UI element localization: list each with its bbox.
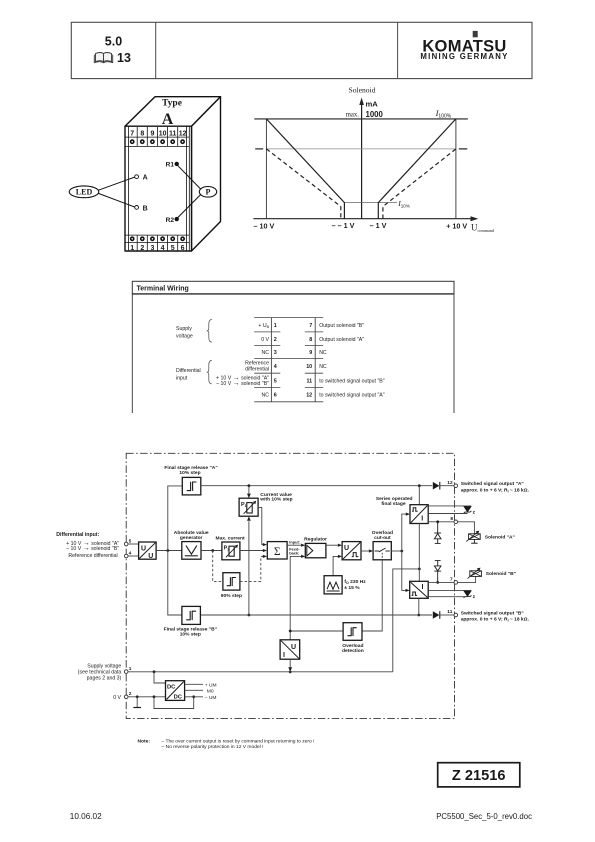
svg-text:detection: detection — [342, 648, 364, 654]
svg-text:Ucommand: Ucommand — [471, 222, 495, 233]
svg-text:5: 5 — [171, 245, 175, 252]
wire stage B bottom output — [428, 596, 467, 598]
svg-text:8: 8 — [140, 130, 144, 137]
svg-text:10.06.02: 10.06.02 — [70, 812, 102, 821]
svg-text:10% step: 10% step — [180, 632, 201, 638]
table horizontals — [254, 318, 323, 402]
svg-text:generator: generator — [180, 535, 203, 541]
wire stage A bottom to stage B top — [418, 524, 420, 582]
absolute value generator — [182, 542, 201, 560]
svg-text:10% step: 10% step — [179, 470, 200, 476]
svg-text:cut-out: cut-out — [374, 535, 391, 541]
row labels left — [216, 323, 270, 399]
svg-text:1: 1 — [274, 323, 277, 329]
pin 2 — [124, 695, 128, 699]
terminal numbers 7-12 — [130, 130, 186, 137]
svg-text:7: 7 — [309, 323, 312, 329]
wire release B line to diode — [200, 614, 432, 616]
svg-text:Regulator: Regulator — [304, 537, 327, 543]
solid curve left — [266, 119, 344, 219]
svg-text:R2: R2 — [166, 217, 175, 224]
svg-text:Switched signal output "A": Switched signal output "A" — [461, 481, 524, 487]
svg-text:fO 230 Hz: fO 230 Hz — [344, 579, 366, 585]
wire regulator to U-pulse — [326, 544, 340, 546]
terminal screws top — [130, 139, 185, 144]
terminal strip top — [125, 127, 189, 146]
section side borders — [131, 294, 133, 413]
pin 1 — [124, 670, 128, 674]
module right face — [192, 97, 221, 251]
LED callout lines — [98, 177, 134, 190]
wire U/U output bus — [156, 550, 182, 552]
wire feedback into regulator — [290, 556, 303, 639]
svg-text:Terminal Wiring: Terminal Wiring — [137, 286, 189, 293]
dashed curve left — [266, 149, 340, 219]
diode output B — [433, 611, 454, 619]
svg-text:9: 9 — [150, 130, 154, 137]
node freewheel A — [436, 520, 439, 523]
potentiometer P2 — [222, 542, 240, 560]
comparator final stage release B — [182, 606, 201, 624]
svg-text:Solenoid "A": Solenoid "A" — [485, 534, 515, 540]
wire stage B to pin 7 and solenoid B — [428, 581, 454, 583]
svg-text:8: 8 — [309, 337, 312, 343]
current sense I/U — [280, 640, 300, 659]
dashed curve right — [383, 149, 456, 219]
svg-text:90% step: 90% step — [221, 593, 242, 599]
svg-text:Z 21516: Z 21516 — [452, 768, 506, 784]
led B — [135, 206, 139, 210]
wire P1 output to summer — [258, 507, 264, 544]
wire pin4 to U/U — [128, 555, 139, 557]
svg-text:differential: differential — [245, 366, 269, 372]
svg-text:– No reverse polarity protect: – No reverse polarity protection in 12 V… — [162, 744, 264, 750]
dashed wire 90% to summer — [240, 556, 265, 581]
svg-text:5: 5 — [274, 378, 277, 384]
solenoid B valve — [468, 568, 482, 579]
svg-text:13: 13 — [117, 51, 131, 65]
svg-text:11: 11 — [447, 609, 452, 615]
svg-text:NC: NC — [262, 350, 270, 356]
svg-text:2: 2 — [129, 691, 132, 697]
diode freewheel A — [434, 522, 441, 544]
svg-text:I10%: I10% — [397, 199, 410, 208]
svg-text:DC: DC — [167, 685, 176, 691]
svg-text:– 10 V: – 10 V — [254, 222, 275, 231]
svg-text:5.0: 5.0 — [105, 35, 122, 49]
node release B junction — [417, 614, 420, 617]
svg-text:7: 7 — [450, 577, 453, 583]
ground — [136, 697, 138, 708]
svg-text:U: U — [141, 545, 146, 552]
svg-text:+ 10 V: + 10 V — [446, 222, 467, 231]
node stage midpoint — [418, 568, 421, 571]
svg-text:– 10 V → solenoid "B": – 10 V → solenoid "B" — [66, 545, 119, 552]
pot R2 — [175, 217, 179, 221]
book icon — [94, 53, 112, 63]
svg-text:DC: DC — [174, 694, 183, 700]
svg-text:2: 2 — [274, 337, 277, 343]
node freewheel B — [436, 581, 439, 584]
svg-text:4: 4 — [161, 245, 165, 252]
wire dc feed — [154, 672, 166, 683]
wire abs to P2 — [201, 550, 222, 552]
header divider 2 — [397, 22, 399, 78]
brace supply — [207, 320, 212, 343]
svg-text:3: 3 — [150, 245, 154, 252]
svg-text:to switched signal output "B": to switched signal output "B" — [319, 378, 385, 384]
terminal strip bottom — [125, 235, 189, 250]
pwm converter U-pulse — [342, 542, 361, 560]
svg-text:NC: NC — [319, 364, 327, 370]
module front face — [125, 126, 192, 251]
svg-text:0 V: 0 V — [113, 695, 121, 701]
wire I/U sense tap — [289, 659, 291, 668]
svg-text:– 1 V: – 1 V — [370, 221, 387, 230]
overload detection comparator — [343, 623, 362, 641]
wire -um — [185, 696, 203, 698]
wire stage A to pin 8 and solenoid A — [428, 521, 454, 523]
svg-text:8: 8 — [450, 516, 453, 522]
svg-text:A: A — [143, 175, 148, 182]
LED callout — [69, 186, 99, 198]
svg-text:MINING GERMANY: MINING GERMANY — [420, 52, 508, 61]
terminal numbers 1-6 — [130, 245, 184, 252]
svg-text:– 10 V → solenoid "B": – 10 V → solenoid "B" — [216, 380, 269, 387]
dashed 10% level — [255, 148, 263, 150]
final stage B — [410, 581, 429, 598]
svg-text:7: 7 — [130, 130, 134, 137]
svg-text:2: 2 — [140, 245, 144, 252]
svg-text:U: U — [148, 553, 153, 560]
svg-text:– The over current output is: – The over current output is reset by co… — [162, 739, 315, 745]
svg-text:4: 4 — [274, 364, 277, 370]
svg-text:LED: LED — [76, 188, 93, 197]
supply rail — [128, 671, 393, 673]
header frame — [71, 22, 532, 78]
wire release A to pin 12 — [201, 485, 432, 487]
svg-text:1: 1 — [129, 666, 132, 672]
max level line — [254, 118, 468, 120]
svg-text:12: 12 — [179, 130, 187, 137]
node -um loop — [192, 695, 195, 698]
svg-text:PC5500_Sec_5-0_rev0.doc: PC5500_Sec_5-0_rev0.doc — [436, 812, 532, 821]
drawing number box — [438, 763, 520, 787]
svg-text:final stage: final stage — [381, 501, 405, 507]
svg-text:9: 9 — [309, 350, 312, 356]
svg-text:+ UM: + UM — [205, 682, 217, 688]
svg-text:Max. current: Max. current — [216, 535, 245, 541]
wire stage B mid output — [428, 589, 471, 591]
svg-text:voltage: voltage — [176, 333, 193, 339]
wire P1 bottom to release B line — [248, 521, 250, 615]
dc-dc converter — [166, 681, 185, 701]
pot R1 — [175, 162, 179, 166]
svg-text:Σ: Σ — [274, 546, 281, 558]
svg-text:Switched signal output "B": Switched signal output "B" — [461, 611, 524, 617]
svg-text:P: P — [206, 188, 211, 197]
svg-text:Solenoid "B": Solenoid "B" — [486, 571, 516, 577]
node stage A drive tap — [418, 484, 421, 487]
svg-text:Output solenoid "A": Output solenoid "A" — [319, 337, 364, 343]
svg-text:approx. 0 to + 6 V; Ri ~ 18 kΩ: approx. 0 to + 6 V; Ri ~ 18 kΩ. — [461, 617, 530, 623]
svg-text:z: z — [473, 511, 476, 516]
svg-text:Solenoid: Solenoid — [348, 86, 375, 95]
pin numbers 1-6 — [274, 323, 277, 399]
svg-text:pages 2 and 3): pages 2 and 3) — [87, 675, 122, 681]
node 0V dc tap — [153, 695, 156, 698]
svg-text:NC: NC — [262, 393, 270, 399]
svg-text:I: I — [283, 652, 285, 659]
brace differential — [207, 360, 212, 384]
pin 7 — [454, 581, 458, 585]
wire cut-out output — [391, 550, 402, 552]
node P1 tap — [248, 484, 251, 487]
svg-text:A: A — [162, 111, 174, 128]
wire 0V loop under dc — [154, 697, 194, 709]
svg-text:1000: 1000 — [366, 110, 384, 119]
left boundary — [265, 119, 267, 219]
node supply rail sense — [289, 671, 292, 674]
P callout — [199, 187, 216, 198]
svg-text:U: U — [344, 545, 349, 552]
x labels — [254, 221, 468, 231]
svg-text:Differential input:: Differential input: — [56, 532, 99, 538]
wire drive to stage B — [402, 551, 407, 590]
svg-text:12: 12 — [306, 393, 312, 399]
svg-text:6: 6 — [181, 245, 185, 252]
svg-text:– – 1 V: – – 1 V — [332, 221, 355, 230]
module top face — [125, 97, 221, 127]
wire U-pulse to cut-out — [361, 550, 371, 552]
terminal screws bottom — [130, 236, 185, 241]
svg-text:10: 10 — [159, 130, 167, 137]
wire stage A top output — [428, 505, 471, 507]
wire to release B — [168, 551, 182, 616]
wire summer to regulator — [287, 544, 303, 546]
wire stage A gate from release line — [418, 486, 420, 505]
svg-text:I: I — [422, 584, 424, 591]
komatsu T mark — [473, 31, 478, 37]
svg-text:12: 12 — [447, 480, 453, 486]
svg-text:Output solenoid "B": Output solenoid "B" — [319, 323, 364, 329]
svg-text:3: 3 — [274, 350, 277, 356]
wire m0 — [185, 689, 203, 691]
svg-text:U: U — [291, 644, 296, 651]
svg-text:mA: mA — [366, 99, 379, 108]
wire into P1 top — [248, 486, 250, 495]
svg-text:z: z — [473, 595, 476, 600]
P callout lines — [178, 165, 201, 189]
svg-text:– UM: – UM — [205, 695, 217, 701]
svg-text:Reference differential: Reference differential — [68, 553, 117, 559]
wire overload detect up — [362, 560, 382, 631]
wire stage A mid output — [428, 513, 467, 515]
overload cut-out switch — [373, 542, 391, 560]
dashed wire bus to 90% step — [213, 551, 223, 582]
header divider 1 — [155, 22, 157, 78]
dashed enclosure — [126, 453, 454, 718]
pin 11 — [454, 613, 458, 617]
summer — [267, 542, 287, 559]
node dc tap — [153, 670, 156, 673]
svg-text:Input:: Input: — [289, 540, 300, 545]
0V rail — [128, 696, 166, 698]
final stage A — [410, 505, 428, 524]
zener A — [464, 507, 476, 516]
svg-text:R1: R1 — [166, 162, 175, 169]
svg-text:I100%: I100% — [435, 109, 452, 119]
svg-text:I: I — [421, 516, 423, 523]
wire oscillator to U-pulse — [333, 556, 340, 575]
wire supply to midpoint — [393, 569, 420, 672]
oscillator fo 230Hz — [324, 576, 342, 594]
solenoid A valve — [466, 531, 480, 544]
svg-text:Note:: Note: — [138, 739, 151, 745]
comparator final stage release A — [182, 477, 201, 495]
comparator 90% step — [223, 573, 240, 590]
front inner edges — [127, 126, 129, 251]
wire stage B to release line — [418, 598, 420, 615]
diode freewheel B — [434, 561, 441, 583]
svg-text:approx. 0 to + 6 V; Ri ~ 18 kΩ: approx. 0 to + 6 V; Ri ~ 18 kΩ. — [461, 487, 530, 493]
right boundary — [455, 119, 457, 219]
node P1 release B junction — [248, 614, 251, 617]
row descriptions — [319, 323, 385, 399]
potentiometer P1 — [239, 498, 258, 516]
svg-text:11: 11 — [169, 130, 177, 137]
svg-text:to switched signal output "A": to switched signal output "A" — [319, 393, 385, 399]
node ground tap — [136, 695, 139, 698]
wire P2 to summer — [240, 550, 265, 552]
pin 8 — [454, 520, 458, 524]
svg-text:max.: max. — [346, 111, 360, 118]
y-axis — [361, 101, 363, 219]
diode output A — [433, 482, 454, 490]
wire pin5 to U/U — [128, 543, 139, 545]
wire drive to stage A — [402, 514, 408, 551]
table verticals — [270, 318, 272, 402]
pin 4 — [124, 554, 128, 558]
svg-text:Differential: Differential — [176, 368, 201, 374]
svg-text:0 V: 0 V — [261, 337, 269, 343]
differential amp U/U — [139, 542, 157, 560]
wire +um — [185, 683, 203, 685]
wire to release A — [168, 486, 183, 551]
wire detect input — [290, 630, 343, 632]
led A — [135, 175, 139, 179]
svg-text:input: input — [176, 375, 188, 381]
svg-text:6: 6 — [274, 393, 277, 399]
node 90% tap — [211, 549, 214, 552]
svg-text:M0: M0 — [207, 688, 214, 694]
svg-text:B: B — [143, 205, 148, 212]
svg-text:Type: Type — [162, 99, 182, 109]
svg-text:± 15 %: ± 15 % — [344, 585, 360, 591]
10% level line — [344, 202, 397, 204]
node final stage drive — [400, 550, 403, 553]
svg-text:+ UB: + UB — [258, 323, 269, 329]
svg-text:1: 1 — [130, 245, 134, 252]
svg-text:11: 11 — [306, 378, 312, 384]
svg-text:NC: NC — [319, 350, 327, 356]
svg-text:10: 10 — [306, 364, 312, 370]
svg-text:back:: back: — [289, 550, 299, 555]
pin numbers 7-12 — [306, 323, 312, 399]
node feedback tap — [289, 630, 292, 633]
zener B — [464, 591, 476, 600]
solid curve right — [378, 119, 456, 219]
x-axis — [253, 218, 474, 220]
regulator — [305, 543, 326, 557]
pin 12 — [454, 484, 458, 488]
terminal wiring title bar — [132, 281, 454, 294]
node bus junction — [166, 549, 169, 552]
pin 5 — [124, 542, 128, 546]
svg-text:Supply: Supply — [176, 326, 192, 332]
svg-text:with 10% step: with 10% step — [259, 497, 292, 503]
